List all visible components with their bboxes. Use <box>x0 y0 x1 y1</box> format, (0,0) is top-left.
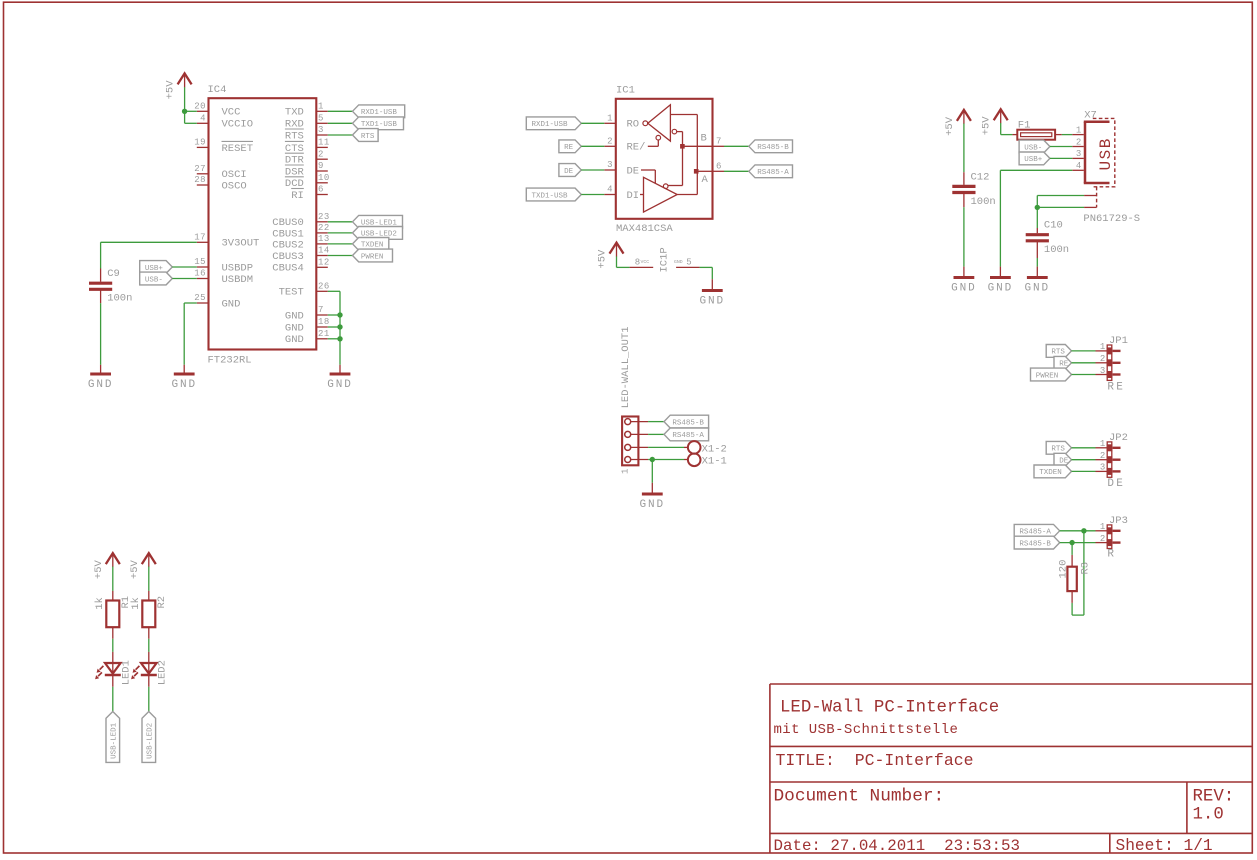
svg-text:16: 16 <box>194 269 206 279</box>
svg-text:FT232RL: FT232RL <box>208 355 252 367</box>
svg-text:7: 7 <box>716 137 722 147</box>
svg-text:C9: C9 <box>107 268 120 280</box>
svg-text:+5V: +5V <box>93 559 105 579</box>
svg-text:R3: R3 <box>1080 562 1092 575</box>
svg-text:USBDP: USBDP <box>222 262 254 274</box>
svg-text:VCC: VCC <box>641 259 650 265</box>
svg-text:RXD1-USB: RXD1-USB <box>532 121 569 129</box>
svg-text:USB-LED1: USB-LED1 <box>111 722 119 759</box>
svg-text:RO: RO <box>627 119 640 131</box>
svg-text:1: 1 <box>1100 342 1106 352</box>
svg-text:GND: GND <box>285 310 304 322</box>
svg-text:TEST: TEST <box>279 287 304 299</box>
svg-text:TXDEN: TXDEN <box>1039 469 1062 477</box>
svg-text:USBDM: USBDM <box>222 274 254 286</box>
svg-text:1: 1 <box>1100 522 1106 532</box>
svg-text:3: 3 <box>318 125 324 135</box>
svg-text:GND: GND <box>1025 283 1051 295</box>
svg-text:6: 6 <box>318 185 324 195</box>
svg-text:11: 11 <box>318 138 330 148</box>
svg-text:GND: GND <box>700 296 726 308</box>
svg-text:25: 25 <box>194 293 206 303</box>
svg-text:GND: GND <box>640 499 666 511</box>
svg-text:DE: DE <box>627 165 640 177</box>
svg-text:3: 3 <box>1076 149 1082 159</box>
svg-text:USB: USB <box>1097 137 1115 170</box>
svg-text:1: 1 <box>1076 125 1082 135</box>
svg-text:VCCIO: VCCIO <box>222 119 254 131</box>
svg-text:Document Number:: Document Number: <box>774 787 945 807</box>
svg-text:3: 3 <box>607 160 613 170</box>
svg-text:VCC: VCC <box>222 107 241 119</box>
svg-text:5: 5 <box>318 114 324 124</box>
svg-text:Sheet: 1/1: Sheet: 1/1 <box>1116 837 1213 855</box>
svg-text:RS485-A: RS485-A <box>1019 529 1051 537</box>
svg-text:22: 22 <box>318 223 330 233</box>
svg-text:A: A <box>702 174 709 186</box>
svg-text:13: 13 <box>318 234 330 244</box>
svg-text:1k: 1k <box>130 597 142 610</box>
svg-text:1.0: 1.0 <box>1193 806 1224 825</box>
svg-text:4: 4 <box>200 114 206 124</box>
svg-text:GND: GND <box>88 379 114 391</box>
svg-text:2: 2 <box>318 149 324 159</box>
svg-text:100n: 100n <box>1044 244 1069 256</box>
svg-text:C12: C12 <box>971 171 990 183</box>
svg-text:GND: GND <box>222 298 241 310</box>
svg-text:R: R <box>1107 549 1116 561</box>
svg-text:3: 3 <box>1100 366 1106 376</box>
svg-text:26: 26 <box>318 282 330 292</box>
svg-text:7: 7 <box>318 305 324 315</box>
svg-text:23: 23 <box>318 212 330 222</box>
svg-text:2: 2 <box>607 137 613 147</box>
svg-text:2: 2 <box>1100 534 1106 544</box>
svg-text:DE: DE <box>1107 478 1125 490</box>
svg-text:USB-: USB- <box>1024 144 1042 152</box>
svg-text:R2: R2 <box>156 596 168 609</box>
svg-text:CBUS4: CBUS4 <box>272 263 304 275</box>
svg-text:28: 28 <box>194 175 206 185</box>
svg-text:USB+: USB+ <box>1024 156 1043 164</box>
svg-text:MAX481CSA: MAX481CSA <box>616 223 673 235</box>
svg-text:DE: DE <box>564 168 574 176</box>
svg-text:IC1: IC1 <box>616 85 635 97</box>
svg-text:LED-WALL_OUT1: LED-WALL_OUT1 <box>620 326 632 408</box>
svg-text:PWREN: PWREN <box>361 253 384 261</box>
svg-text:JP2: JP2 <box>1109 432 1128 444</box>
svg-text:IC4: IC4 <box>208 84 227 96</box>
svg-text:18: 18 <box>318 317 330 327</box>
svg-text:+5V: +5V <box>981 116 993 136</box>
svg-text:1k: 1k <box>94 597 106 610</box>
svg-text:mit USB-Schnittstelle: mit USB-Schnittstelle <box>774 722 959 738</box>
svg-text:2: 2 <box>1100 451 1106 461</box>
svg-text:12: 12 <box>318 258 330 268</box>
svg-text:27: 27 <box>194 164 206 174</box>
svg-text:C10: C10 <box>1044 220 1063 232</box>
svg-text:5: 5 <box>686 257 692 267</box>
svg-text:15: 15 <box>194 257 206 267</box>
svg-text:+5V: +5V <box>944 116 956 136</box>
svg-text:GND: GND <box>285 322 304 334</box>
svg-text:RS485-B: RS485-B <box>1019 540 1051 548</box>
svg-text:JP1: JP1 <box>1109 335 1128 347</box>
svg-text:USB-LED2: USB-LED2 <box>147 723 155 759</box>
svg-text:19: 19 <box>194 138 206 148</box>
svg-text:2: 2 <box>1100 354 1106 364</box>
svg-text:REV:: REV: <box>1193 787 1235 806</box>
svg-text:USB-: USB- <box>145 276 163 284</box>
svg-text:+5V: +5V <box>165 80 177 100</box>
svg-text:X7: X7 <box>1084 110 1097 122</box>
svg-text:+5V: +5V <box>597 249 609 269</box>
svg-text:4: 4 <box>1076 161 1082 171</box>
svg-text:OSCI: OSCI <box>222 169 247 181</box>
svg-text:RXD1-USB: RXD1-USB <box>361 109 398 117</box>
svg-text:9: 9 <box>318 161 324 171</box>
svg-text:100n: 100n <box>107 293 132 305</box>
svg-text:LED-Wall PC-Interface: LED-Wall PC-Interface <box>780 698 999 717</box>
svg-text:Date: 27.04.2011 23:53:53: Date: 27.04.2011 23:53:53 <box>774 837 1020 855</box>
svg-text:TITLE: PC-Interface: TITLE: PC-Interface <box>776 751 974 770</box>
svg-text:GND: GND <box>951 283 977 295</box>
svg-text:100n: 100n <box>971 196 996 208</box>
svg-text:RS485-B: RS485-B <box>757 144 789 152</box>
svg-text:RTS: RTS <box>285 130 304 142</box>
svg-text:X1-2: X1-2 <box>702 444 727 456</box>
svg-text:GND: GND <box>327 379 353 391</box>
svg-text:GND: GND <box>285 334 304 346</box>
svg-text:GND: GND <box>988 283 1014 295</box>
svg-text:1: 1 <box>1100 439 1106 449</box>
svg-text:1: 1 <box>607 114 613 124</box>
svg-text:TXD1-USB: TXD1-USB <box>361 121 398 129</box>
svg-text:IC1P: IC1P <box>659 247 671 272</box>
svg-text:RESET: RESET <box>222 143 254 155</box>
svg-text:CBUS2: CBUS2 <box>272 239 304 251</box>
svg-text:RE: RE <box>564 144 574 152</box>
svg-text:RE: RE <box>1107 381 1125 393</box>
svg-text:GND: GND <box>674 259 683 265</box>
svg-text:RS485-A: RS485-A <box>672 432 704 440</box>
svg-text:OSCO: OSCO <box>222 180 247 192</box>
svg-text:B: B <box>701 132 707 144</box>
svg-text:JP3: JP3 <box>1109 515 1128 527</box>
svg-text:4: 4 <box>607 185 613 195</box>
svg-text:14: 14 <box>318 246 330 256</box>
svg-text:+5V: +5V <box>129 559 141 579</box>
svg-text:CBUS3: CBUS3 <box>272 251 304 263</box>
svg-text:20: 20 <box>194 102 206 112</box>
svg-text:21: 21 <box>318 329 330 339</box>
svg-text:17: 17 <box>194 233 206 243</box>
svg-text:DI: DI <box>627 190 640 202</box>
svg-text:TXD: TXD <box>285 107 304 119</box>
svg-text:6: 6 <box>716 162 722 172</box>
svg-text:RI: RI <box>291 190 304 202</box>
svg-text:LED1: LED1 <box>120 660 132 685</box>
svg-text:PWREN: PWREN <box>1036 372 1059 380</box>
svg-text:LED2: LED2 <box>156 660 168 685</box>
svg-text:3: 3 <box>1100 463 1106 473</box>
svg-text:RTS: RTS <box>1051 446 1065 454</box>
svg-text:2: 2 <box>1076 137 1082 147</box>
svg-text:10: 10 <box>318 173 330 183</box>
svg-text:1: 1 <box>318 102 324 112</box>
svg-text:RTS: RTS <box>361 133 375 141</box>
svg-text:RS485-A: RS485-A <box>757 169 789 177</box>
svg-text:X1-1: X1-1 <box>702 456 727 468</box>
svg-text:RE/: RE/ <box>627 142 646 154</box>
svg-text:TXD1-USB: TXD1-USB <box>532 192 569 200</box>
svg-text:GND: GND <box>171 379 197 391</box>
svg-text:PN61729-S: PN61729-S <box>1083 213 1140 225</box>
svg-text:RTS: RTS <box>1051 349 1065 357</box>
svg-text:120: 120 <box>1058 560 1070 579</box>
svg-text:1: 1 <box>621 469 631 474</box>
svg-text:3V3OUT: 3V3OUT <box>222 238 260 250</box>
svg-text:RS485-B: RS485-B <box>672 419 704 427</box>
